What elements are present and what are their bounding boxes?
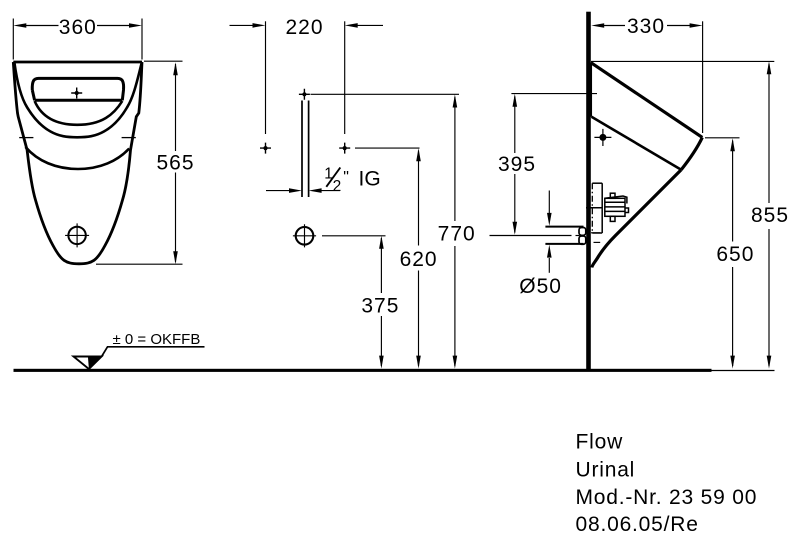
svg-text:770: 770 xyxy=(438,223,476,246)
dimension 330 xyxy=(604,21,703,133)
pipe thread label 1/2" IG xyxy=(324,166,380,196)
svg-text:220: 220 xyxy=(285,16,323,39)
svg-text:IG: IG xyxy=(359,167,381,190)
dimension 855 xyxy=(768,64,770,366)
front view left tick xyxy=(19,137,33,139)
side view top slope xyxy=(591,63,703,138)
water pipe cross top xyxy=(299,89,310,100)
drain flange xyxy=(579,228,586,245)
water supply pipe double line xyxy=(302,101,309,198)
drain pipe side view xyxy=(545,227,583,244)
front view basin top rounded rect xyxy=(32,78,123,100)
dimension 375 xyxy=(380,238,382,366)
floor extension thin xyxy=(712,370,775,372)
datum leader xyxy=(102,347,205,357)
svg-text:2: 2 xyxy=(333,178,342,195)
dimension 620 xyxy=(418,151,420,367)
extension line 770 top xyxy=(311,93,460,95)
extension line 650 xyxy=(705,137,740,139)
pipe size arrows xyxy=(266,190,340,192)
dimension 360 xyxy=(13,19,142,60)
mounting cross left xyxy=(260,143,271,154)
front view bowl lower curve xyxy=(26,147,130,169)
svg-text:650: 650 xyxy=(716,243,754,266)
side view hidden line xyxy=(591,183,593,233)
drain circle-cross middle xyxy=(293,224,316,247)
dimension 770 xyxy=(454,97,456,366)
front view small cross marker xyxy=(71,88,82,99)
extension line 375 top xyxy=(322,235,386,237)
mounting cross right xyxy=(339,143,350,154)
side view rim inner diagonal xyxy=(592,117,682,170)
title text block xyxy=(576,431,758,537)
side view back edge xyxy=(590,63,593,117)
extension line 620 top xyxy=(355,147,420,149)
floor line xyxy=(14,369,712,372)
side view front face xyxy=(681,137,702,169)
svg-text:360: 360 xyxy=(59,16,97,39)
svg-text:375: 375 xyxy=(361,295,399,318)
svg-text:08.06.05/Re: 08.06.05/Re xyxy=(576,513,699,536)
front view basin divider line xyxy=(35,99,123,102)
svg-text:Mod.-Nr. 23 59 00: Mod.-Nr. 23 59 00 xyxy=(576,486,758,509)
wall xyxy=(586,12,591,371)
dimension 565 xyxy=(96,61,183,264)
dimension Ø50 xyxy=(548,191,550,273)
svg-text:330: 330 xyxy=(627,15,665,38)
front view right tick xyxy=(122,137,136,139)
top extension line 855 xyxy=(591,60,774,62)
front view outer outline xyxy=(13,62,142,264)
svg-text:Urinal: Urinal xyxy=(576,459,636,482)
front view inner rim curve xyxy=(14,63,141,170)
front view drain circle-cross xyxy=(65,223,89,247)
svg-text:565: 565 xyxy=(156,152,194,175)
dimension 395 xyxy=(511,94,597,233)
svg-text:± 0 = OKFFB: ± 0 = OKFFB xyxy=(113,331,201,348)
svg-text:Ø50: Ø50 xyxy=(519,275,562,298)
side view bracket xyxy=(586,183,602,233)
side view underside curve xyxy=(592,170,681,268)
svg-text:620: 620 xyxy=(400,248,438,271)
dimension 220 xyxy=(230,21,384,134)
datum triangle xyxy=(74,357,102,370)
side view flush valve block xyxy=(605,193,629,221)
drain centerline xyxy=(490,233,601,243)
side view mounting dot xyxy=(599,134,606,141)
svg-text:855: 855 xyxy=(751,204,789,227)
svg-text:Flow: Flow xyxy=(576,431,624,454)
dimension 650 xyxy=(732,141,734,367)
svg-text:": " xyxy=(343,169,349,186)
svg-text:395: 395 xyxy=(498,153,536,176)
front view basin D-curve xyxy=(35,101,123,125)
